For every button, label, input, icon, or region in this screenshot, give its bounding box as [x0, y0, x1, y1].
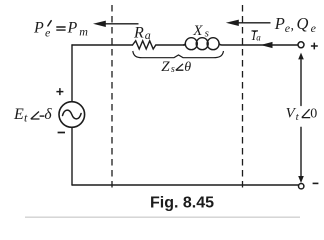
- svg-text:P: P: [67, 19, 78, 36]
- svg-text:Z: Z: [161, 59, 170, 75]
- svg-text:a: a: [145, 28, 151, 42]
- svg-text:e: e: [45, 25, 51, 39]
- svg-text:0: 0: [310, 107, 317, 122]
- svg-text:X: X: [192, 23, 203, 39]
- svg-text:,: ,: [291, 19, 295, 34]
- svg-text:E: E: [13, 106, 24, 123]
- svg-text:P: P: [33, 19, 44, 36]
- svg-text:δ: δ: [44, 106, 52, 123]
- svg-text:Q: Q: [297, 14, 309, 33]
- svg-text:θ: θ: [184, 60, 191, 75]
- svg-text:m: m: [79, 25, 88, 39]
- svg-text:e: e: [311, 21, 317, 35]
- svg-text:P: P: [274, 14, 285, 33]
- svg-text:a: a: [256, 32, 261, 42]
- svg-text:s: s: [205, 27, 209, 39]
- svg-text:R: R: [133, 25, 144, 42]
- svg-text:s: s: [171, 64, 175, 75]
- svg-text:Fig. 8.45: Fig. 8.45: [150, 195, 214, 212]
